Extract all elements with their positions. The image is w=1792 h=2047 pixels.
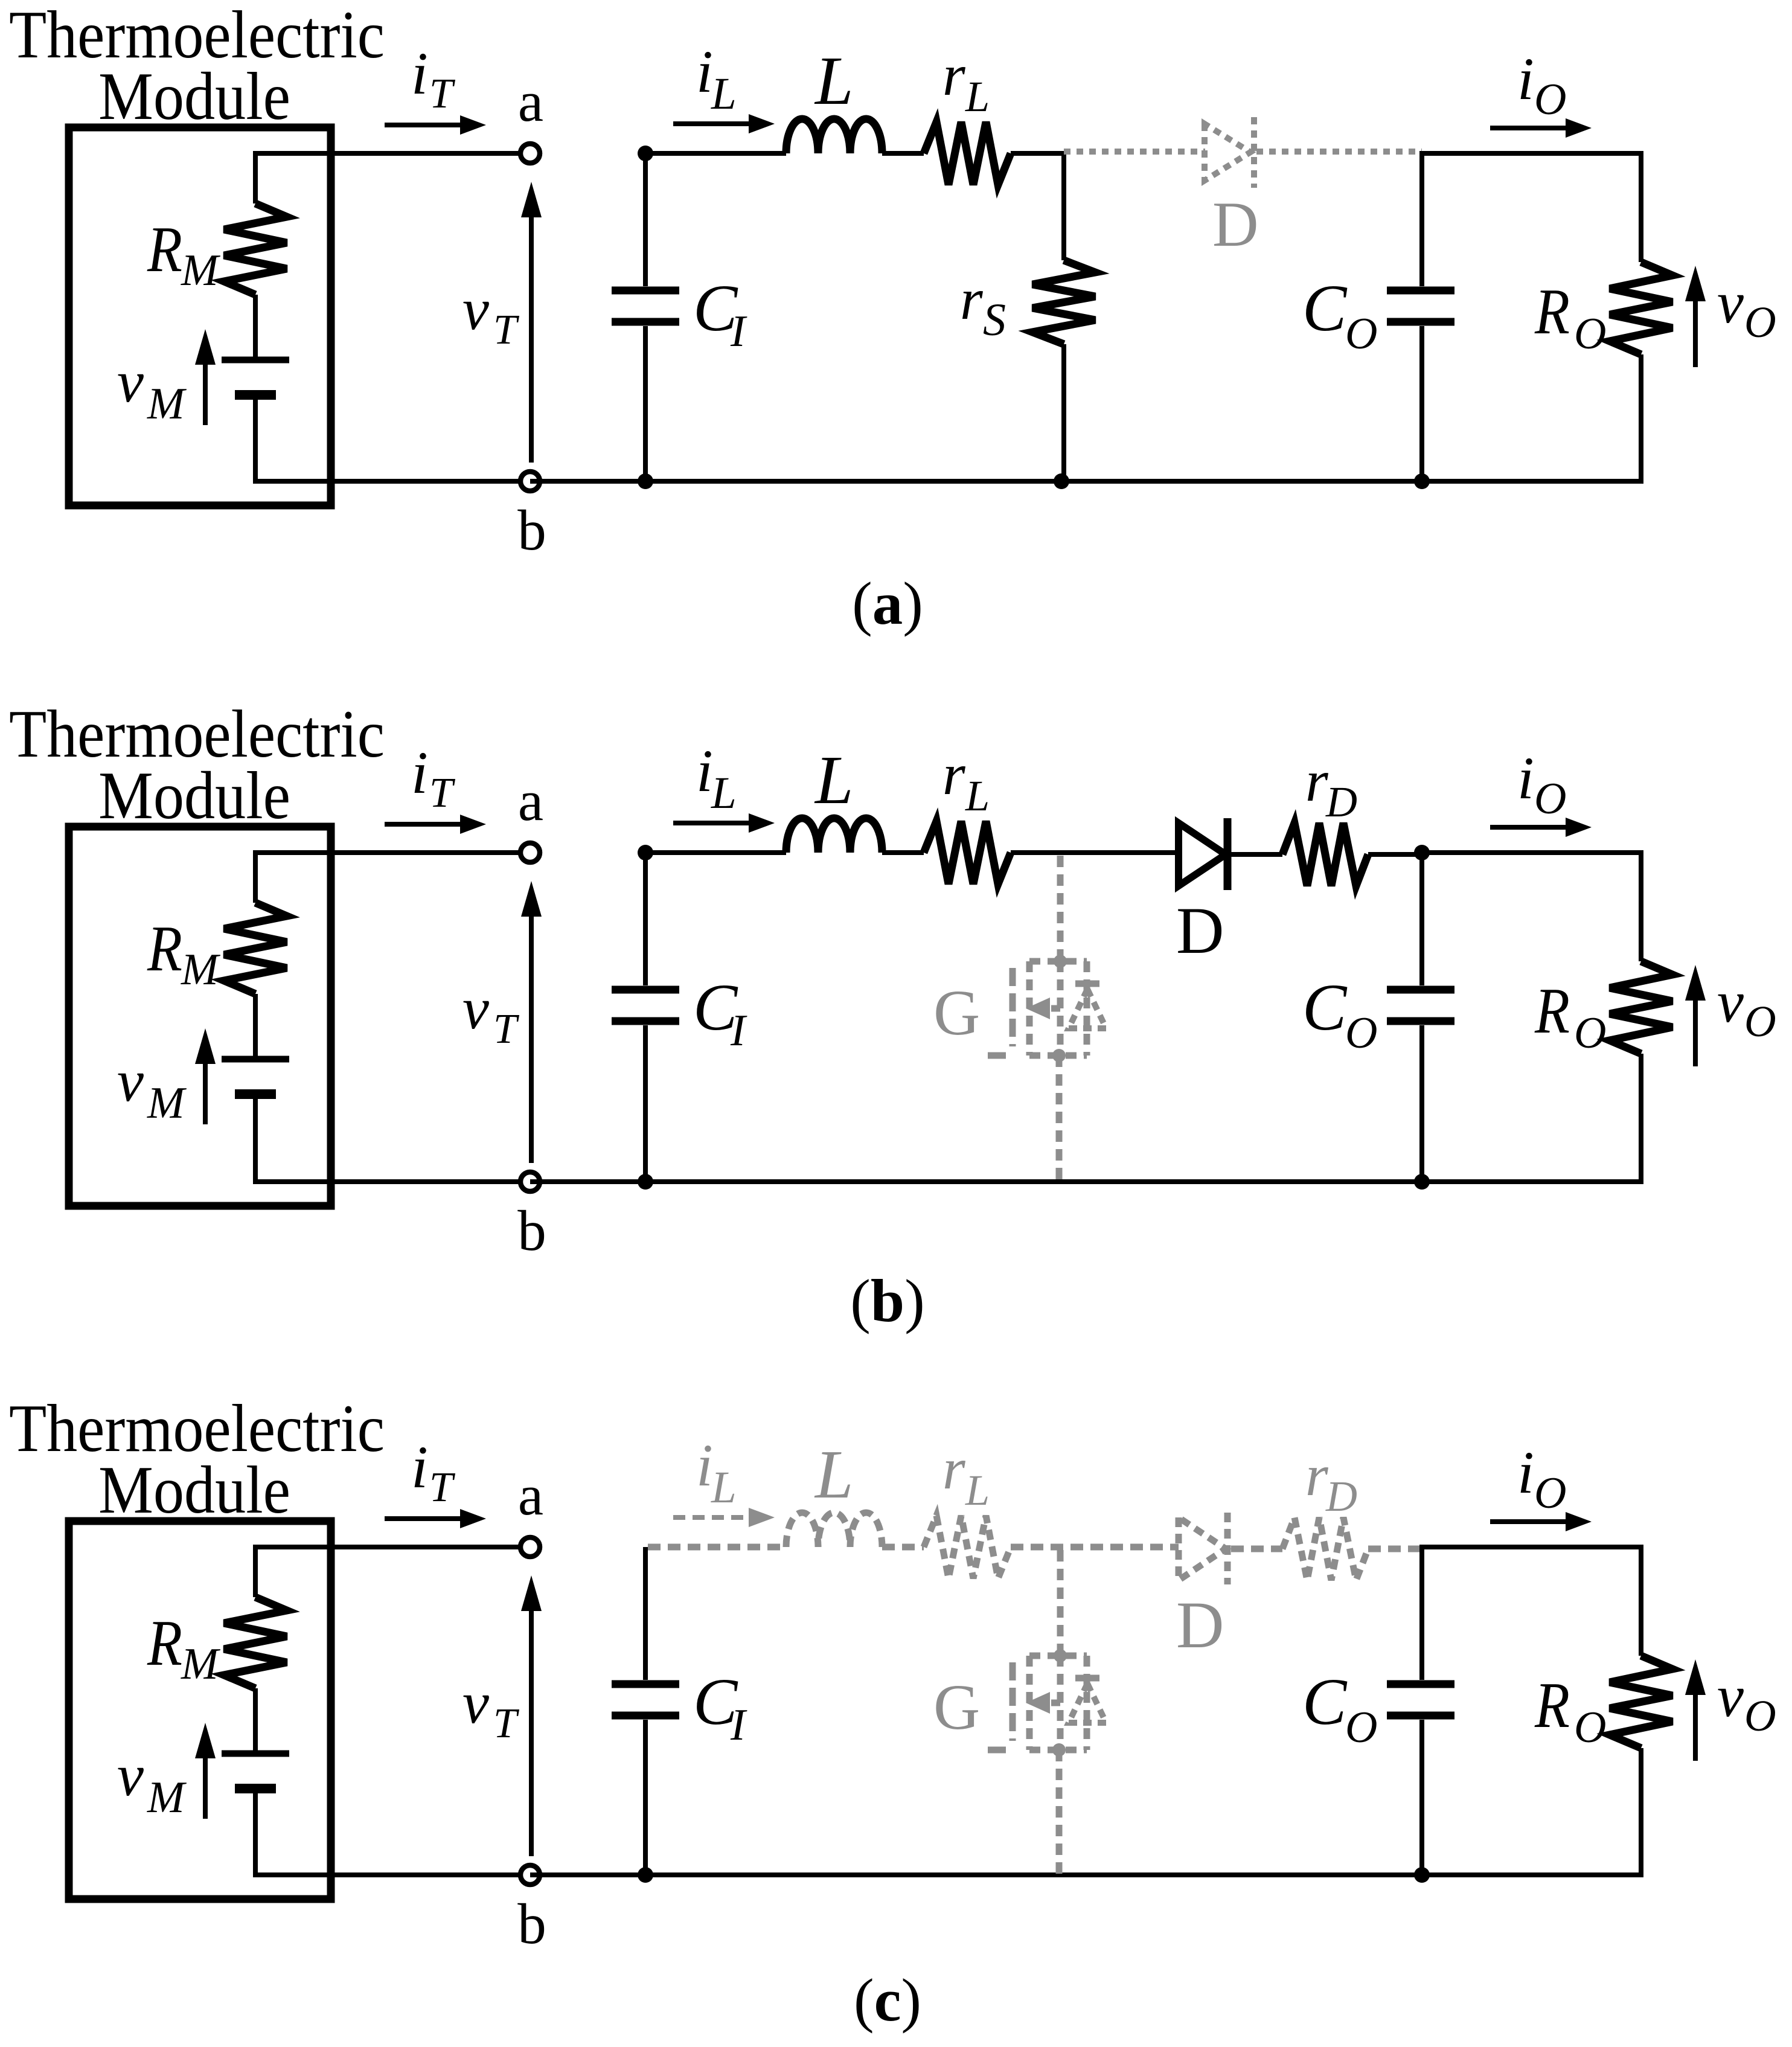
wire: C_O top stub (b) (1419, 853, 1424, 985)
arrow i_O (a) (1490, 126, 1568, 130)
wire: R_O branch bottom (a) (1639, 354, 1643, 484)
diode D (c) (1179, 1517, 1226, 1580)
resistor R_O (c) (1610, 1656, 1672, 1748)
junction dot r_S bottom (a) (1054, 473, 1069, 489)
battery v_M short plate (a) (235, 390, 276, 400)
terminal a (a) (520, 144, 540, 163)
resistor r_L (c) (924, 1516, 1011, 1578)
wire: inductor to r_L (c) (882, 1544, 924, 1551)
wire: R_M top stub (a) (253, 151, 258, 203)
wire: module top lead (a) (255, 151, 530, 156)
dotted wire: corner to diode D (a) (1064, 149, 1205, 155)
capacitor C_I bottom plate (a) (612, 318, 679, 326)
svg-text:O: O (1744, 997, 1776, 1046)
wire: R_O branch top (c) (1639, 1545, 1643, 1656)
wire: battery to bottom (a) (253, 395, 258, 484)
capacitor C_O top plate (b) (1387, 986, 1454, 994)
svg-text:G: G (933, 978, 980, 1049)
arrow i_T (b) (385, 822, 462, 827)
arrow v_T (b) (529, 914, 534, 1163)
svg-text:Module: Module (98, 1453, 290, 1528)
svg-text:i: i (1517, 45, 1534, 112)
wire: output top (c) (1419, 1545, 1641, 1549)
capacitor C_O bottom plate (b) (1387, 1017, 1454, 1025)
MOSFET G drain node dot (b) (1054, 955, 1067, 968)
svg-text:L: L (711, 1462, 737, 1513)
svg-text:L: L (814, 42, 853, 119)
MOSFET G arrow (b) (1026, 998, 1050, 1019)
wire: r_D to output node (c) (1368, 1546, 1422, 1552)
wire: C_O bottom stub (a) (1419, 326, 1424, 481)
wire: R_O branch top (b) (1639, 850, 1643, 961)
wire: r_D to output node (b) (1368, 852, 1422, 857)
diode D cathode bar (dotted) (a) (1251, 117, 1257, 188)
svg-text:r: r (960, 267, 984, 332)
capacitor C_I top plate (c) (612, 1680, 679, 1688)
svg-text:R: R (147, 913, 182, 985)
resistor r_L (a) (924, 122, 1011, 185)
MOSFET G body-diode triangle (b) (1069, 989, 1106, 1028)
svg-text:v: v (117, 1048, 144, 1114)
svg-text:M: M (147, 1078, 187, 1128)
svg-text:a: a (518, 769, 543, 833)
svg-text:T: T (493, 307, 520, 353)
wire: C_I bottom stub (c) (643, 1720, 648, 1875)
MOSFET G source node dot (c) (1052, 1743, 1066, 1757)
svg-text:D: D (1176, 894, 1224, 967)
svg-text:L: L (965, 72, 990, 121)
terminal b (a) (520, 472, 540, 491)
arrow i_L (c) (673, 1515, 751, 1520)
MOSFET G body-diode branch (c) (1084, 1656, 1090, 1750)
svg-text:O: O (1345, 309, 1377, 359)
thermoelectric module box (c) (69, 1521, 331, 1899)
svg-text:T: T (493, 1700, 520, 1747)
MOSFET G gate lead (b) (988, 1052, 1013, 1059)
svg-text:G: G (933, 1672, 980, 1743)
svg-text:M: M (147, 1773, 187, 1822)
svg-text:Module: Module (98, 758, 290, 833)
MOSFET G drain dashed lead (b) (1057, 856, 1064, 961)
svg-text:b: b (517, 498, 546, 562)
diode D (dotted, off) (a) (1205, 124, 1250, 181)
svg-text:T: T (429, 770, 456, 816)
svg-text:i: i (696, 38, 713, 105)
MOSFET G internal vertical (c) (1057, 1656, 1064, 1750)
svg-text:(b): (b) (850, 1267, 924, 1334)
svg-text:O: O (1574, 1008, 1606, 1058)
wire: C_I top stub (c) (643, 1547, 648, 1680)
wire: r_L to MOSFET node (c) (1011, 1544, 1179, 1551)
wire: node a to inductor (b) (645, 850, 786, 855)
svg-text:M: M (181, 1639, 221, 1689)
junction dot C_I bottom (b) (638, 1174, 653, 1190)
svg-text:I: I (730, 307, 747, 356)
MOSFET G drain dashed lead (c) (1057, 1550, 1064, 1656)
MOSFET G source dashed lead to rail (b) (1056, 1056, 1063, 1182)
svg-text:v: v (462, 277, 489, 342)
svg-text:O: O (1574, 1703, 1606, 1752)
junction dot C_O bottom (c) (1414, 1867, 1430, 1883)
svg-text:O: O (1574, 309, 1606, 359)
wire: C_O top stub (c) (1419, 1547, 1424, 1680)
svg-text:T: T (429, 71, 456, 117)
wire: C_I bottom stub (a) (643, 326, 648, 481)
svg-text:r: r (942, 1437, 966, 1501)
MOSFET G top horizontal (c) (1029, 1653, 1087, 1659)
wire: module bottom lead (c) (255, 1872, 530, 1877)
inductor L (c) (786, 1513, 882, 1547)
terminal b (c) (520, 1865, 540, 1885)
arrow v_O (a) (1693, 299, 1698, 367)
svg-text:v: v (1717, 969, 1744, 1035)
wire: diode to r_D (c) (1231, 1546, 1282, 1552)
svg-text:v: v (1717, 270, 1744, 336)
svg-text:M: M (181, 945, 221, 995)
svg-text:R: R (1534, 1670, 1570, 1741)
MOSFET G body-diode branch (b) (1084, 961, 1090, 1056)
resistor r_L (b) (924, 821, 1011, 884)
svg-text:a: a (518, 1463, 543, 1527)
arrow i_L (a) (673, 121, 751, 126)
svg-text:L: L (965, 772, 990, 820)
svg-text:D: D (1212, 189, 1259, 260)
arrow i_T (a) (385, 123, 462, 127)
wire: C_I bottom stub (b) (643, 1025, 648, 1182)
resistor R_M (b) (224, 903, 287, 994)
MOSFET G drain node dot (c) (1054, 1649, 1067, 1662)
svg-text:L: L (711, 69, 737, 119)
MOSFET G channel (b) (1026, 961, 1033, 1056)
terminal a (c) (520, 1537, 540, 1557)
arrow i_O (b) (1490, 825, 1568, 830)
MOSFET G body-diode triangle (c) (1069, 1683, 1106, 1723)
wire: R_M to battery (c) (253, 1688, 258, 1754)
svg-text:O: O (1534, 75, 1566, 124)
svg-text:C: C (1302, 271, 1348, 345)
MOSFET G body-diode cathode bar (c) (1075, 1675, 1099, 1682)
svg-text:L: L (965, 1466, 990, 1514)
svg-text:M: M (147, 379, 187, 429)
svg-text:i: i (1517, 745, 1534, 812)
wire: R_M top stub (b) (253, 850, 258, 903)
battery v_M short plate (c) (235, 1784, 276, 1793)
svg-text:O: O (1345, 1008, 1377, 1058)
terminal a (b) (520, 843, 540, 862)
svg-text:I: I (730, 1700, 747, 1750)
resistor r_D (b) (1282, 823, 1368, 886)
svg-text:b: b (517, 1892, 546, 1956)
diode D cathode bar (c) (1224, 1513, 1231, 1584)
resistor R_O (b) (1610, 961, 1672, 1054)
wire: output top (a) (1419, 151, 1641, 156)
arrow v_O (c) (1693, 1693, 1698, 1761)
wire: bottom rail (c) (530, 1872, 1641, 1877)
svg-text:v: v (117, 1743, 144, 1808)
svg-text:L: L (814, 742, 853, 818)
wire: node a to inductor (c) (648, 1544, 786, 1551)
wire: R_M to battery (b) (253, 994, 258, 1059)
wire: bottom rail (a) (530, 479, 1641, 484)
MOSFET G gate bar (c) (1010, 1662, 1016, 1741)
wire: module bottom lead (b) (255, 1179, 530, 1184)
wire: C_O bottom stub (c) (1419, 1720, 1424, 1875)
junction dot output node (b) (1414, 845, 1430, 860)
MOSFET G gate lead (c) (988, 1747, 1013, 1754)
wire: module top lead (b) (255, 850, 530, 855)
wire: module bottom lead (a) (255, 479, 530, 484)
wire: R_O branch bottom (b) (1639, 1054, 1643, 1184)
svg-text:D: D (1325, 1472, 1357, 1520)
svg-text:C: C (1302, 970, 1348, 1044)
capacitor C_I top plate (b) (612, 986, 679, 994)
svg-text:Module: Module (98, 59, 290, 134)
svg-text:i: i (696, 1432, 713, 1499)
svg-text:R: R (1534, 975, 1570, 1047)
arrow i_T (c) (385, 1516, 462, 1521)
svg-text:v: v (462, 976, 489, 1042)
wire: module top lead (c) (255, 1545, 530, 1549)
resistor R_M (a) (224, 203, 287, 295)
svg-text:M: M (181, 246, 221, 295)
resistor r_S (a) (1032, 260, 1095, 344)
MOSFET G channel (c) (1026, 1656, 1033, 1750)
capacitor C_O bottom plate (c) (1387, 1712, 1454, 1720)
svg-text:i: i (411, 739, 428, 806)
svg-text:R: R (1534, 276, 1570, 348)
wire: C_O top stub (a) (1419, 153, 1424, 286)
terminal b (b) (520, 1172, 540, 1191)
svg-text:L: L (814, 1436, 853, 1513)
junction dot C_I bottom (c) (638, 1867, 653, 1883)
svg-text:D: D (1176, 1588, 1224, 1662)
wire: inductor to r_L (a) (882, 151, 924, 156)
wire: C_I top stub (a) (643, 153, 648, 286)
junction dot C_O bottom (b) (1414, 1174, 1430, 1190)
thermoelectric module box (a) (69, 127, 331, 505)
wire: inductor to r_L (b) (882, 850, 924, 855)
wire: corner down to r_S (a) (1061, 151, 1066, 260)
capacitor C_I bottom plate (c) (612, 1712, 679, 1720)
svg-text:(a): (a) (852, 569, 923, 637)
arrow v_T (a) (529, 215, 534, 463)
arrow v_M (c) (203, 1756, 208, 1819)
svg-text:T: T (493, 1006, 520, 1052)
capacitor C_O bottom plate (a) (1387, 318, 1454, 326)
svg-text:S: S (983, 295, 1006, 345)
inductor L (a) (786, 119, 882, 153)
MOSFET G arrow (c) (1026, 1692, 1050, 1714)
wire: bottom rail (b) (530, 1179, 1641, 1184)
junction dot C_I bottom (a) (638, 473, 653, 489)
wire: C_O bottom stub (b) (1419, 1025, 1424, 1182)
svg-text:O: O (1534, 774, 1566, 824)
wire: r_L to MOSFET node (b) (1011, 850, 1179, 855)
MOSFET G source horizontal (c) (1029, 1747, 1087, 1754)
battery v_M short plate (b) (235, 1089, 276, 1099)
wire: battery to bottom (c) (253, 1789, 258, 1877)
wire: R_O branch bottom (c) (1639, 1748, 1643, 1877)
svg-text:v: v (117, 349, 144, 415)
thermoelectric module box (b) (69, 827, 331, 1206)
svg-text:C: C (1302, 1665, 1348, 1738)
arrow i_L (b) (673, 821, 751, 825)
svg-text:i: i (411, 40, 428, 107)
MOSFET G body-diode cathode bar (b) (1075, 981, 1099, 987)
capacitor C_I bottom plate (b) (612, 1017, 679, 1025)
wire: node a to inductor (a) (645, 151, 786, 156)
MOSFET G source horizontal (b) (1029, 1052, 1087, 1059)
svg-text:O: O (1534, 1469, 1566, 1518)
wire: diode to r_D (b) (1231, 852, 1282, 857)
svg-text:R: R (147, 214, 182, 286)
svg-text:b: b (517, 1199, 546, 1263)
svg-text:O: O (1345, 1703, 1377, 1752)
MOSFET G source dashed lead to rail (c) (1056, 1750, 1063, 1875)
svg-text:r: r (942, 742, 966, 807)
arrow v_M (a) (203, 362, 208, 425)
MOSFET G top horizontal (b) (1029, 958, 1087, 965)
svg-text:I: I (730, 1006, 747, 1056)
battery v_M long plate (a) (222, 357, 289, 364)
wire: r_S to bottom rail (a) (1061, 344, 1066, 481)
battery v_M long plate (b) (222, 1056, 289, 1063)
capacitor C_I top plate (a) (612, 287, 679, 295)
arrow v_M (b) (203, 1062, 208, 1124)
resistor R_M (c) (224, 1597, 287, 1688)
diode D (b) (1179, 823, 1226, 886)
wire: C_I top stub (b) (643, 853, 648, 985)
wire: r_L to corner (a) (1011, 151, 1066, 156)
wire: R_M to battery (a) (253, 295, 258, 360)
wire: R_M top stub (c) (253, 1545, 258, 1597)
wire: R_O branch top (a) (1639, 151, 1643, 262)
resistor r_D (c) (1282, 1517, 1368, 1580)
resistor R_O (a) (1610, 262, 1672, 354)
svg-text:i: i (1517, 1439, 1534, 1506)
svg-text:T: T (429, 1464, 456, 1511)
svg-text:r: r (942, 43, 966, 107)
junction dot C_O bottom (a) (1414, 473, 1430, 489)
capacitor C_O top plate (c) (1387, 1680, 1454, 1688)
svg-text:(c): (c) (854, 1966, 921, 2034)
MOSFET G gate bar (b) (1010, 968, 1016, 1046)
battery v_M long plate (c) (222, 1751, 289, 1757)
svg-text:a: a (518, 69, 543, 133)
svg-text:v: v (1717, 1664, 1744, 1729)
junction dot C_I top (b) (638, 845, 653, 860)
MOSFET G internal vertical (b) (1057, 961, 1064, 1056)
arrow v_O (b) (1693, 998, 1698, 1066)
svg-text:L: L (711, 768, 737, 818)
arrow v_T (c) (529, 1609, 534, 1856)
svg-text:O: O (1744, 298, 1776, 347)
svg-text:O: O (1744, 1691, 1776, 1740)
svg-text:i: i (696, 737, 713, 804)
wire: battery to bottom (b) (253, 1094, 258, 1184)
wire: output top (b) (1419, 850, 1641, 855)
dotted wire: diode to output node (a) (1256, 149, 1422, 155)
MOSFET G source node dot (b) (1052, 1049, 1066, 1062)
junction dot C_I top (a) (638, 146, 653, 161)
inductor L (b) (786, 818, 882, 853)
svg-text:v: v (462, 1670, 489, 1736)
svg-text:D: D (1325, 778, 1357, 826)
diode D cathode bar (b) (1224, 818, 1232, 890)
arrow i_O (c) (1490, 1519, 1568, 1524)
svg-text:i: i (411, 1434, 428, 1501)
capacitor C_O top plate (a) (1387, 287, 1454, 295)
svg-text:R: R (147, 1607, 182, 1679)
